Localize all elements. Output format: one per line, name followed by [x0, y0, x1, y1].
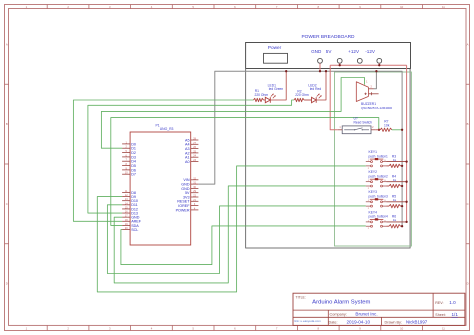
pin GND right	[191, 183, 199, 185]
pin SDA	[122, 224, 130, 226]
svg-text:A0: A0	[185, 160, 190, 164]
wire KEY3 to 5V rail	[387, 201, 407, 203]
svg-text:QSC5025YA-12R4000: QSC5025YA-12R4000	[361, 106, 392, 110]
pin A4	[191, 143, 199, 145]
svg-text:11: 11	[442, 327, 445, 331]
svg-text:A: A	[467, 43, 469, 47]
pin D2	[122, 152, 130, 154]
svg-text:10: 10	[400, 5, 404, 9]
svg-text:POWER: POWER	[176, 208, 190, 212]
svg-text:+12V: +12V	[348, 49, 360, 54]
pin D10	[122, 200, 130, 202]
pin A1	[191, 156, 199, 158]
wire SCL to KEY4	[121, 226, 366, 265]
svg-text:link: u.easyeda.com: link: u.easyeda.com	[294, 319, 321, 323]
resistor R6 1k	[387, 225, 390, 227]
svg-text:D: D	[6, 282, 8, 286]
power breadboard box	[246, 43, 411, 69]
pin GND	[122, 216, 130, 218]
svg-text:UNO_R3: UNO_R3	[160, 127, 174, 131]
pin A0	[191, 161, 199, 163]
svg-text:Drawn By:: Drawn By:	[385, 321, 403, 325]
pin D3	[122, 156, 130, 158]
wire GND terminal drop	[319, 63, 321, 71]
frame ruler ticks and labels	[46, 5, 48, 10]
pin D7	[122, 173, 130, 175]
pin D11	[122, 204, 130, 206]
svg-text:5V: 5V	[326, 49, 333, 54]
pin A5	[191, 139, 199, 141]
svg-text:D7: D7	[131, 173, 136, 177]
svg-text:REV:: REV:	[435, 301, 443, 305]
title block	[293, 293, 465, 325]
svg-text:-12V: -12V	[365, 49, 376, 54]
buzzer pin 2 to GND bus	[369, 88, 374, 90]
wire D13 to R2 LED2	[88, 100, 294, 213]
buzzer plus sign	[364, 93, 366, 95]
svg-text:led Red: led Red	[310, 87, 322, 91]
pin D0	[122, 143, 130, 145]
pin D9	[122, 196, 130, 198]
wire D9 to KEY1	[97, 166, 366, 292]
svg-text:GND: GND	[311, 49, 322, 54]
buzzer pin 1 stub	[369, 93, 379, 95]
svg-text:220 Ohm: 220 Ohm	[255, 93, 269, 97]
wire D11 to KEY3	[107, 205, 365, 274]
svg-text:Brunet Inc.: Brunet Inc.	[355, 312, 377, 317]
wire GND bus	[198, 71, 402, 226]
svg-text:C: C	[6, 202, 8, 206]
wire KEY4 to 5V rail	[387, 221, 407, 223]
wire 5V to reed switch	[330, 65, 338, 130]
gray breadboard outline	[246, 69, 411, 249]
pin A2	[191, 152, 199, 154]
wire LED1 cathode to GND bus	[270, 71, 286, 100]
wire D1 to buzzer	[101, 78, 364, 149]
wire 5V horizontal rail	[330, 64, 406, 66]
pin IOREF right	[191, 205, 199, 207]
resistor R5 1k	[387, 205, 390, 207]
svg-text:push_button1: push_button1	[369, 154, 389, 158]
pin VIN right	[191, 179, 199, 181]
svg-text:11: 11	[442, 5, 445, 9]
svg-text:push_button4: push_button4	[369, 215, 389, 219]
pin AREF	[122, 220, 130, 222]
svg-text:B: B	[6, 122, 8, 126]
svg-text:1/1: 1/1	[452, 312, 459, 317]
pin D8	[122, 191, 130, 193]
svg-text:Company:: Company:	[330, 313, 347, 317]
pin POWER right	[191, 209, 199, 211]
svg-text:Reed Switch: Reed Switch	[354, 121, 373, 125]
pin D4	[122, 160, 130, 162]
svg-text:10k: 10k	[384, 123, 390, 127]
resistor R3 1k	[387, 165, 390, 167]
pin GND right	[191, 187, 199, 189]
svg-text:led Green: led Green	[269, 87, 284, 91]
svg-text:Power: Power	[268, 45, 282, 50]
svg-text:10: 10	[400, 327, 404, 331]
svg-text:SCL: SCL	[131, 228, 138, 232]
resistor R4 1k	[387, 185, 390, 187]
svg-text:push_button2: push_button2	[369, 174, 389, 178]
svg-text:Date:: Date:	[329, 321, 338, 325]
pin D13	[122, 212, 130, 214]
pin SCL	[122, 229, 130, 231]
svg-text:A: A	[6, 43, 8, 47]
wire GND pin to KEY2	[114, 186, 366, 283]
wire KEY2 to 5V rail	[387, 181, 407, 183]
svg-text:220 Ohm: 220 Ohm	[295, 93, 309, 97]
wire 5V vertical rail to keys	[406, 65, 408, 222]
wire LED2 cathode to GND bus	[316, 71, 326, 100]
svg-text:push_button3: push_button3	[369, 195, 389, 199]
reed switch pins	[338, 129, 342, 131]
svg-text:B: B	[467, 122, 469, 126]
buzzer BUZZER1 speaker symbol	[356, 82, 368, 102]
pin 5V right	[191, 192, 199, 194]
wire SDA to reed switch node	[111, 118, 379, 226]
svg-text:POWER BREADBOARD: POWER BREADBOARD	[301, 34, 355, 40]
svg-text:Sheet:: Sheet:	[435, 313, 445, 317]
pin D5	[122, 165, 130, 167]
arduino U P1 UNO_R3 body	[130, 132, 191, 245]
wire -12V drop	[378, 63, 380, 65]
pin A3	[191, 148, 199, 150]
green group box	[335, 72, 412, 246]
svg-text:2019-04-10: 2019-04-10	[347, 320, 371, 325]
svg-text:Arduino Alarm System: Arduino Alarm System	[312, 300, 370, 306]
wire 5V drop	[339, 63, 341, 65]
svg-text:D: D	[467, 282, 469, 286]
pin D1	[122, 147, 130, 149]
pin D12	[122, 208, 130, 210]
wire KEY1 to 5V rail	[387, 161, 407, 163]
svg-text:C: C	[467, 202, 469, 206]
svg-text:NickB1997: NickB1997	[406, 320, 428, 325]
pin D6	[122, 169, 130, 171]
svg-text:1.0: 1.0	[449, 300, 456, 305]
pin 3V3 right	[191, 196, 199, 198]
pin RESET right	[191, 200, 199, 202]
wire AREF to R1 LED1	[73, 100, 253, 221]
svg-text:TITLE:: TITLE:	[296, 296, 306, 300]
